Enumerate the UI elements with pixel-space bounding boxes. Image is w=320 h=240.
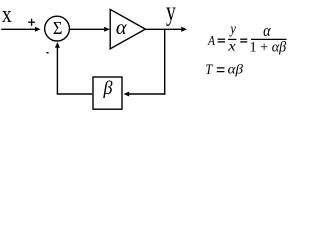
svg-text:T: T — [205, 62, 213, 78]
summing junction circle — [45, 16, 70, 41]
svg-text:Σ: Σ — [53, 18, 63, 38]
svg-text:β: β — [103, 78, 114, 100]
wire feedback left segment — [57, 93, 93, 95]
wire feedback up into summer — [56, 48, 58, 95]
svg-text:x: x — [227, 40, 236, 54]
equals 2 — [240, 38, 247, 40]
wire output tap down — [164, 29, 166, 94]
fraction bar 1 — [228, 38, 236, 40]
svg-text:αβ: αβ — [228, 62, 244, 77]
svg-text:A: A — [207, 33, 215, 48]
equals 3 — [217, 67, 225, 69]
equation T = alpha*beta — [205, 62, 244, 78]
wire summer to amplifier — [69, 28, 104, 30]
equals 1 — [218, 38, 226, 40]
block beta box — [93, 77, 122, 109]
minus sign at feedback input — [46, 52, 48, 54]
op-amp alpha forward gain triangle — [110, 9, 145, 48]
svg-text:α: α — [116, 17, 128, 39]
svg-text:1 + αβ: 1 + αβ — [250, 40, 288, 56]
fraction bar 2 — [251, 38, 287, 40]
svg-text:α: α — [263, 22, 271, 40]
wire feedback right segment into beta — [129, 93, 166, 95]
wire output arrow — [145, 28, 181, 30]
equation A = y/x = alpha/(1+alpha*beta) — [207, 22, 287, 56]
wire input into summer — [1, 28, 35, 30]
plus sign at summer input — [28, 21, 35, 23]
svg-text:y: y — [229, 22, 237, 38]
svg-text:y: y — [166, 0, 176, 27]
svg-text:x: x — [2, 0, 12, 27]
